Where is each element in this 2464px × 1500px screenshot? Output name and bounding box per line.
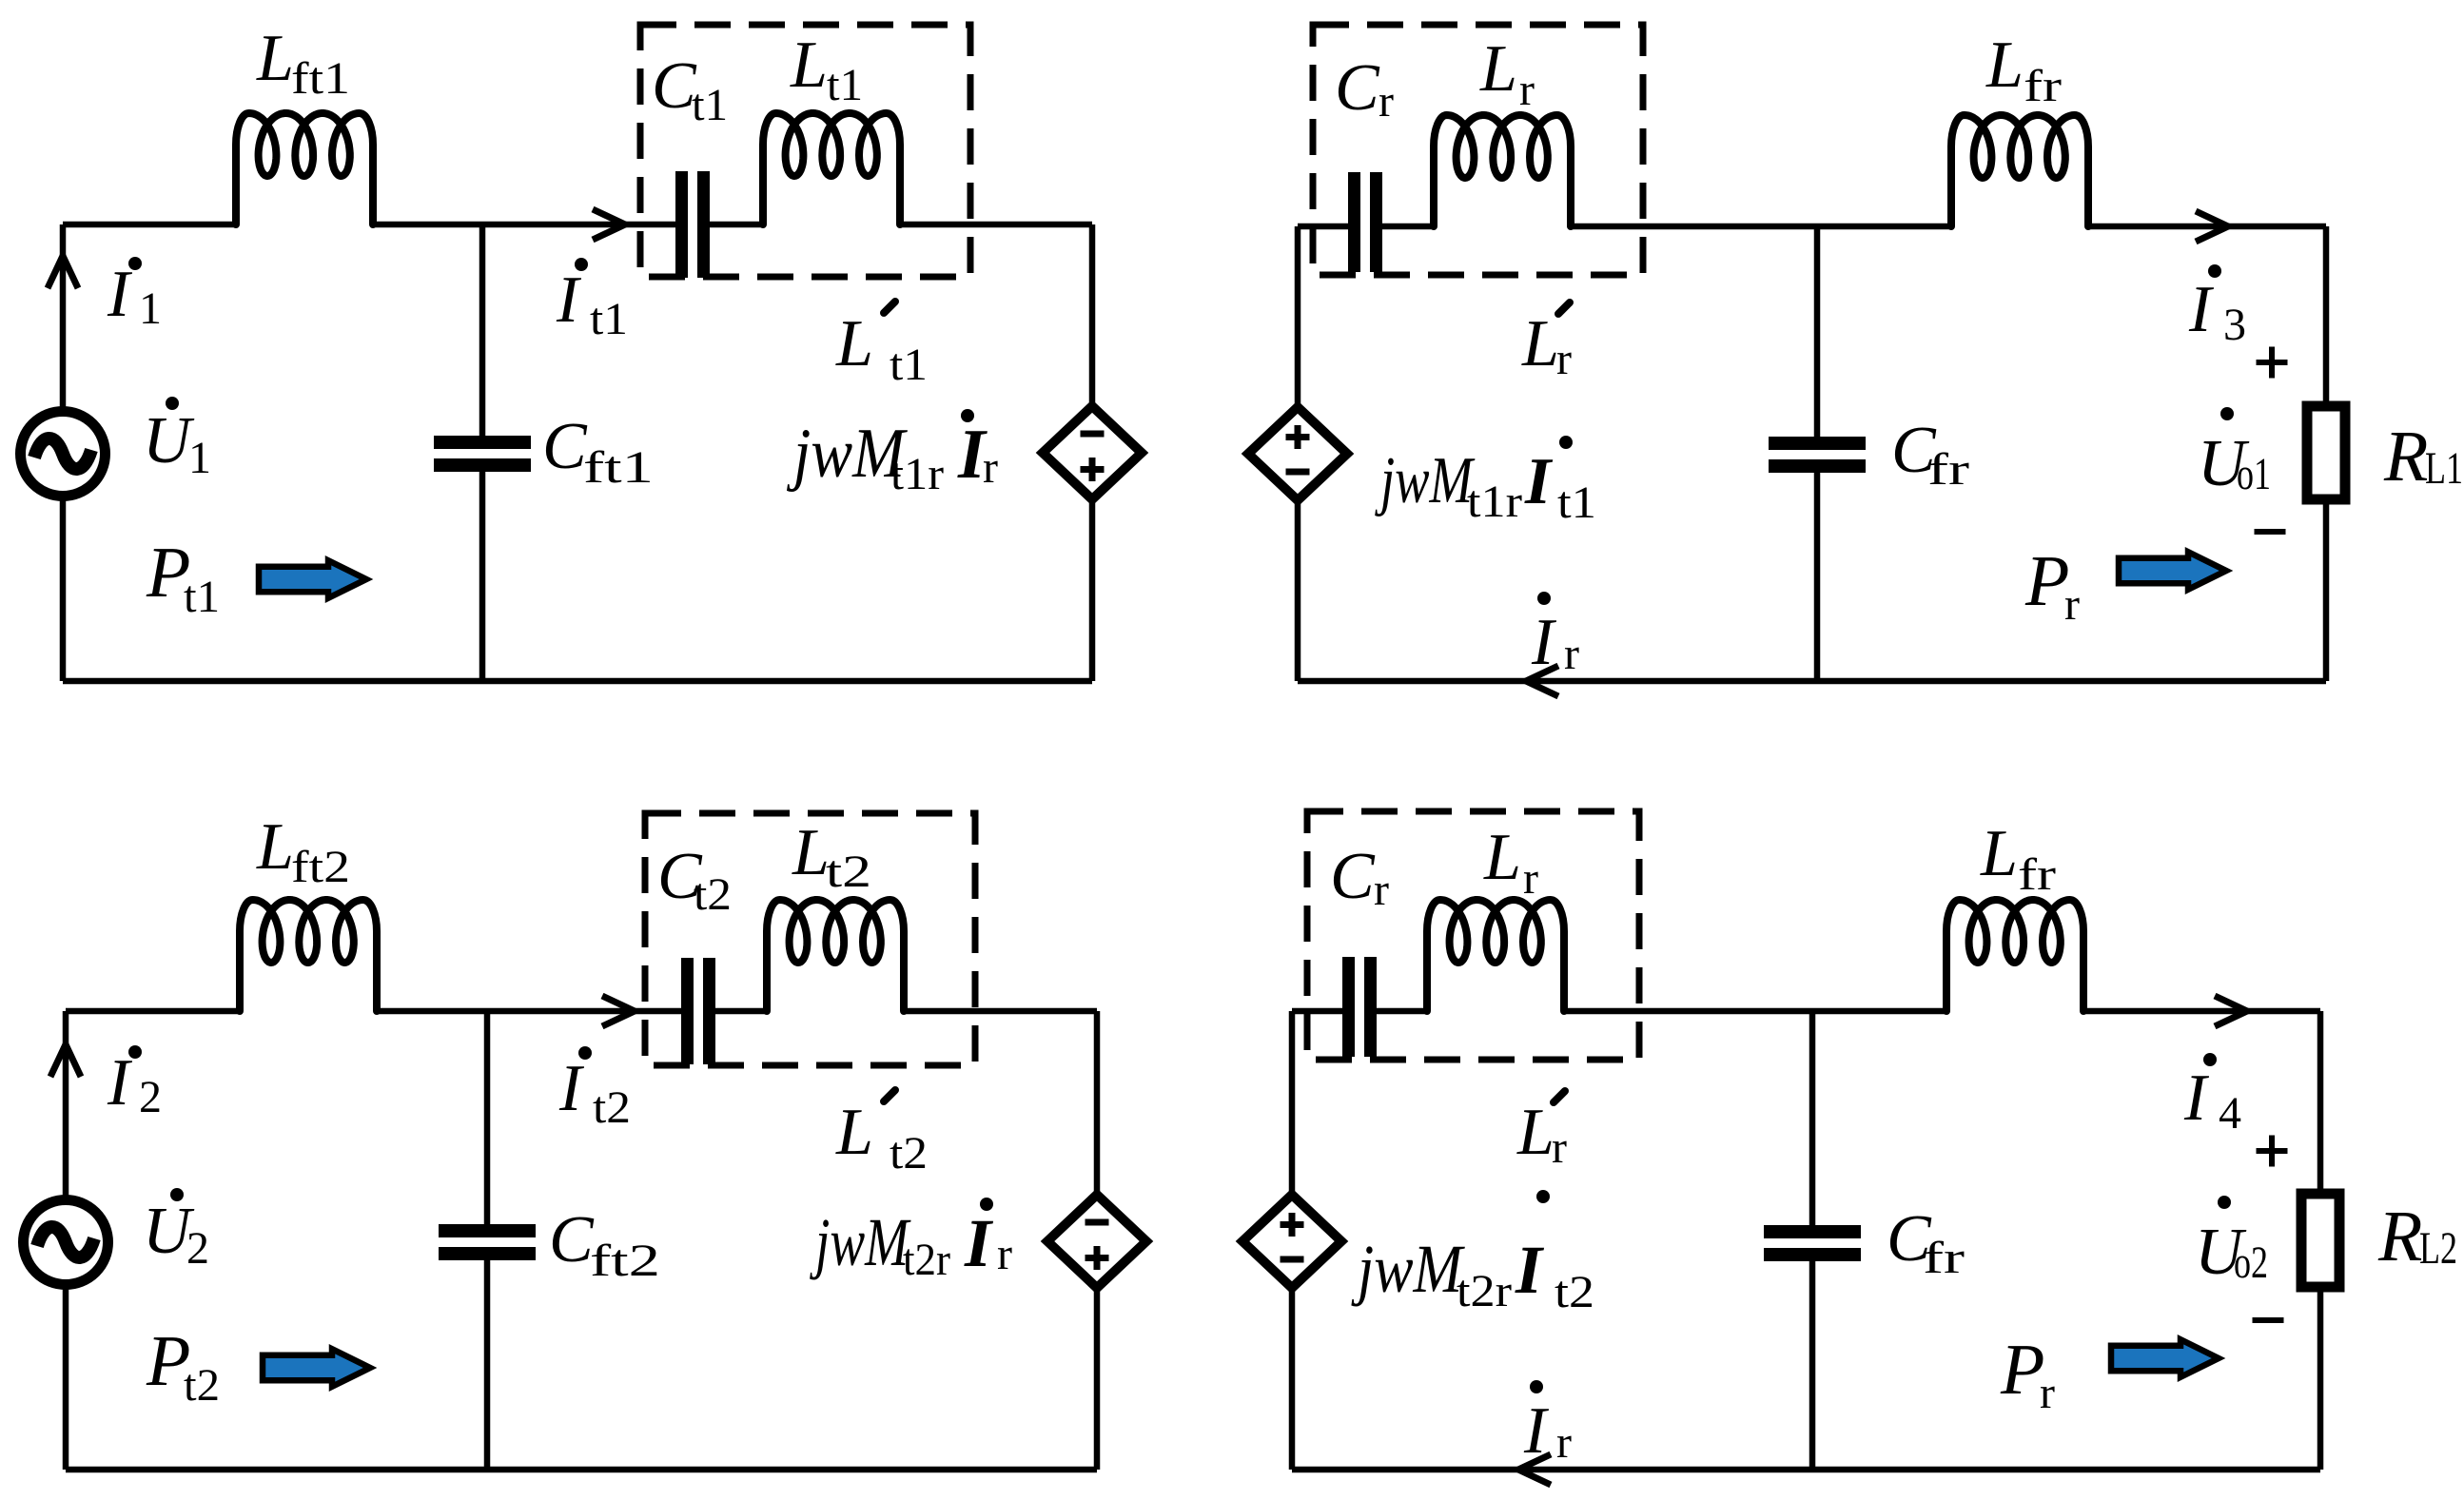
svg-text:2: 2 — [186, 1223, 209, 1274]
svg-text:t2r: t2r — [1457, 1266, 1512, 1316]
svg-text:I: I — [558, 1052, 585, 1125]
svg-text:C: C — [542, 410, 588, 483]
svg-text:r: r — [2040, 1368, 2055, 1418]
svg-text:L: L — [1516, 1096, 1555, 1169]
svg-text:R: R — [2377, 1197, 2422, 1276]
svg-text:L: L — [1980, 817, 2018, 890]
svg-text:ft1: ft1 — [583, 442, 654, 493]
svg-text:o1: o1 — [2237, 449, 2271, 499]
svg-text:t2: t2 — [184, 1360, 220, 1411]
svg-text:P: P — [2024, 541, 2069, 621]
svg-text:t1: t1 — [827, 60, 863, 110]
svg-text:r: r — [997, 1229, 1012, 1279]
svg-text:r: r — [1519, 65, 1535, 115]
svg-text:L: L — [1483, 821, 1521, 894]
svg-text:3: 3 — [2223, 300, 2246, 350]
svg-text:t2: t2 — [1555, 1267, 1594, 1317]
svg-text:I: I — [1515, 1232, 1545, 1308]
svg-text:1: 1 — [139, 283, 162, 334]
svg-text:ft2: ft2 — [590, 1236, 660, 1286]
svg-text:I: I — [1523, 1394, 1550, 1468]
svg-text:L2: L2 — [2419, 1223, 2457, 1274]
svg-text:r: r — [1556, 334, 1572, 384]
svg-text:ft1: ft1 — [291, 53, 350, 104]
svg-text:L: L — [1521, 307, 1559, 380]
svg-text:C: C — [1330, 840, 1376, 913]
svg-text:t2: t2 — [890, 1128, 928, 1179]
svg-text:I: I — [1524, 445, 1554, 518]
svg-text:r: r — [2064, 579, 2080, 630]
svg-text:t1: t1 — [890, 340, 928, 390]
svg-text:I: I — [107, 258, 133, 331]
svg-text:L: L — [256, 22, 294, 95]
svg-text:r: r — [1564, 629, 1579, 679]
svg-text:2: 2 — [139, 1072, 162, 1122]
svg-text:fr: fr — [1923, 1233, 1965, 1283]
svg-text:t2: t2 — [826, 847, 871, 897]
svg-text:L: L — [790, 29, 828, 102]
svg-text:r: r — [1523, 853, 1538, 904]
svg-text:I: I — [556, 263, 582, 337]
svg-text:t1r: t1r — [1467, 477, 1522, 527]
svg-text:C: C — [652, 49, 697, 123]
svg-text:P: P — [2000, 1330, 2044, 1410]
svg-text:r: r — [1374, 865, 1389, 915]
svg-text:L: L — [835, 1096, 873, 1169]
svg-text:I: I — [107, 1046, 133, 1120]
svg-text:t1: t1 — [184, 572, 220, 622]
svg-text:fr: fr — [1927, 444, 1969, 495]
svg-text:jwM: jwM — [810, 1204, 911, 1280]
svg-text:fr: fr — [2018, 849, 2056, 900]
svg-text:jwM: jwM — [1375, 444, 1476, 517]
svg-text:L: L — [256, 810, 294, 884]
svg-text:L: L — [1985, 29, 2024, 102]
svg-text:r: r — [1556, 1417, 1572, 1468]
svg-text:r: r — [1379, 76, 1394, 127]
svg-text:r: r — [983, 442, 998, 493]
svg-text:jwM: jwM — [1351, 1231, 1465, 1307]
svg-text:r: r — [1552, 1122, 1567, 1173]
svg-text:t2: t2 — [593, 1082, 631, 1133]
svg-text:o2: o2 — [2234, 1237, 2268, 1288]
svg-text:1: 1 — [188, 433, 211, 483]
svg-text:I: I — [1531, 606, 1557, 679]
svg-text:C: C — [1335, 51, 1380, 125]
svg-text:U: U — [143, 404, 195, 477]
svg-text:ft2: ft2 — [291, 842, 350, 892]
svg-text:I: I — [2188, 273, 2215, 346]
svg-text:I: I — [2183, 1062, 2210, 1135]
svg-text:t1: t1 — [692, 80, 728, 130]
svg-text:L: L — [835, 307, 873, 380]
svg-text:t1r: t1r — [890, 449, 944, 499]
svg-text:L1: L1 — [2425, 443, 2463, 494]
svg-text:R: R — [2383, 417, 2428, 497]
svg-text:fr: fr — [2024, 61, 2062, 111]
svg-text:L: L — [1479, 32, 1517, 106]
svg-text:t1: t1 — [590, 294, 628, 344]
svg-text:4: 4 — [2219, 1088, 2241, 1139]
svg-text:t2r: t2r — [903, 1235, 950, 1285]
svg-text:L: L — [792, 816, 830, 889]
svg-text:C: C — [549, 1203, 595, 1276]
svg-text:t2: t2 — [694, 869, 732, 920]
svg-text:t1: t1 — [1557, 477, 1596, 528]
svg-text:I: I — [964, 1205, 994, 1281]
